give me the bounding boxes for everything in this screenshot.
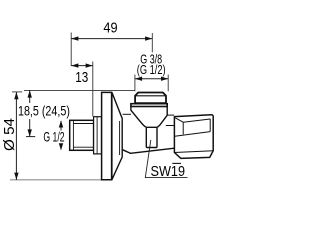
inlet pipe G1/2 body	[70, 120, 94, 150]
wall flange cone	[112, 92, 122, 179]
dimension G3/8 extension line left	[134, 75, 136, 92]
dimension 18,5 down arrow	[28, 129, 32, 136]
dimension G1/2 down arrow line	[60, 144, 62, 150]
dimension G3/8 right arrow	[161, 77, 168, 81]
dimension 18,5 line lower	[29, 119, 31, 137]
body right side	[157, 107, 167, 127]
body top cap	[131, 104, 167, 107]
handle top face diagonal	[175, 118, 183, 122]
dimension G1/2 up arrow line	[60, 121, 62, 131]
dimension 49 line	[71, 38, 152, 40]
stem bottom line	[166, 125, 174, 127]
collar ring	[94, 117, 102, 154]
handle bottom band line	[174, 151, 213, 153]
dimension 49 extension line right	[151, 33, 153, 52]
collar step line	[96, 117, 98, 154]
handle inner top line	[183, 119, 210, 122]
dimension G3/8 line	[135, 78, 168, 80]
dimension G1/2 down arrow	[59, 143, 63, 150]
handle inner left line	[182, 122, 184, 134]
dimension 13 line	[71, 65, 93, 67]
dimension G1/2 up arrow	[59, 120, 63, 127]
dimension 49 left arrow	[71, 36, 78, 40]
dimension 49 extension line left	[70, 33, 72, 67]
wall flange face	[102, 92, 112, 179]
flange face inner line	[110, 93, 112, 179]
dimension G3/8 left arrow	[135, 77, 142, 81]
dimension G3/8 extension line right	[167, 75, 169, 92]
dimension 18,5 line upper	[29, 90, 31, 103]
svg-text:13: 13	[75, 69, 88, 86]
outlet thread inner line	[136, 95, 166, 97]
dimension D54 extension line top	[12, 91, 22, 93]
flange cone inner contour	[119, 121, 121, 155]
flange to body connector	[123, 113, 131, 115]
svg-text:18,5 (24,5): 18,5 (24,5)	[18, 102, 70, 118]
inlet pipe thread core top	[73, 123, 93, 125]
SW19 leader line	[145, 140, 187, 178]
handle inner right line	[209, 119, 211, 132]
dimension D54 up arrow	[14, 92, 18, 99]
handle inner bottom line	[175, 132, 211, 137]
dimension 13 extension line right	[92, 62, 94, 117]
handle knob outline	[174, 115, 213, 159]
dimension 18,5 up arrow	[28, 90, 32, 97]
svg-text:SW19: SW19	[151, 163, 186, 180]
dimension 49 right arrow	[145, 36, 152, 40]
dimension 13 right arrow	[86, 63, 93, 67]
body left side	[131, 107, 146, 127]
hex nut SW19	[146, 127, 157, 147]
svg-text:Ø 54: Ø 54	[2, 118, 18, 151]
body bottom outline	[123, 148, 175, 153]
dimension 18,5 bottom tick	[26, 136, 35, 138]
inlet pipe chamfer line	[72, 121, 74, 151]
dimension D54 down arrow	[14, 173, 18, 180]
svg-text:(G 1/2): (G 1/2)	[137, 62, 166, 77]
outlet thread G3/8	[135, 93, 166, 104]
dimension 18,5 reference line top	[24, 89, 135, 91]
dimension D54 line	[15, 92, 17, 180]
dimension D54 extension line bottom	[10, 179, 102, 181]
dimension 13 left arrow	[71, 63, 78, 67]
svg-text:G 1/2: G 1/2	[43, 129, 64, 145]
tick above SW19	[172, 162, 181, 164]
stem top line	[167, 114, 174, 116]
inlet pipe thread core bottom	[73, 146, 93, 148]
svg-text:49: 49	[103, 20, 117, 37]
